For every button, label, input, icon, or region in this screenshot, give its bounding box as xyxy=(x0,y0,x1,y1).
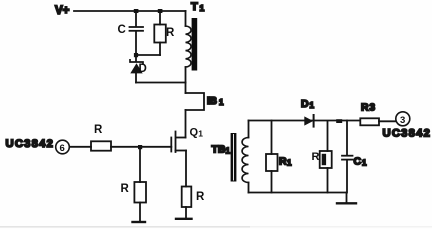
transformer T1 core bar xyxy=(192,18,198,71)
wire R top lead xyxy=(159,11,161,25)
wire C1 bottom lead xyxy=(346,160,348,192)
pin circle 6 xyxy=(56,140,70,154)
svg-text:C: C xyxy=(118,24,126,36)
junction secondary output node xyxy=(336,119,342,123)
svg-text:1: 1 xyxy=(226,147,231,156)
wire R1 bottom lead xyxy=(271,171,273,193)
wire secondary bottom rail xyxy=(249,192,347,194)
transformer TB1 core bars xyxy=(231,133,237,182)
svg-text:R: R xyxy=(196,191,205,203)
wire T1 top pin xyxy=(185,11,187,26)
svg-text:C: C xyxy=(354,156,362,168)
resistor R1 (vertical box) xyxy=(266,154,292,171)
wire bottom of primary loop xyxy=(136,82,186,84)
svg-text:T: T xyxy=(191,1,198,13)
capacitor C1 xyxy=(342,156,367,168)
wire divider tap down xyxy=(139,148,141,182)
label UC3842 pin6 xyxy=(6,138,55,150)
svg-text:TB: TB xyxy=(212,144,226,156)
label UC3842 pin3 xyxy=(383,128,432,140)
junction resistor R tap xyxy=(158,9,163,13)
wire R bottom to cap node horizontal xyxy=(136,54,160,56)
svg-text:3: 3 xyxy=(400,115,405,126)
node junction cap/zener xyxy=(134,53,138,57)
svg-text:3: 3 xyxy=(370,103,376,114)
wire cap bottom lead to zener node xyxy=(135,32,137,62)
wire C1 top lead xyxy=(346,121,348,156)
node V+ xyxy=(55,5,70,17)
wire R1 top lead xyxy=(271,121,273,155)
wire zener anode down xyxy=(135,73,137,82)
wire ground stem (secondary) xyxy=(346,193,348,203)
junction divider tap xyxy=(138,145,142,149)
svg-text:1: 1 xyxy=(219,98,224,107)
transformer TB1 secondary winding xyxy=(242,138,248,183)
transformer T1 primary winding xyxy=(186,26,192,67)
svg-text:1: 1 xyxy=(287,159,292,168)
svg-text:1: 1 xyxy=(198,129,203,139)
resistor R (gate divider, vertical box) xyxy=(121,182,147,203)
svg-text:1: 1 xyxy=(200,3,205,13)
junction capacitor C tap xyxy=(134,9,139,13)
wire R3 to pin circle xyxy=(379,120,396,122)
resistor R3 (horizontal box) xyxy=(360,102,379,126)
svg-text:R: R xyxy=(361,102,369,114)
wire drain drop to IB1 jog xyxy=(185,83,187,94)
resistor R (gate, horizontal box) xyxy=(91,124,111,151)
svg-text:6: 6 xyxy=(60,143,65,154)
svg-text:1: 1 xyxy=(310,101,315,110)
wire top rail from V+ to T1 xyxy=(74,10,186,12)
svg-text:D: D xyxy=(301,98,309,110)
resistor R (source sense, vertical box) xyxy=(182,187,205,208)
transistor Q1 (N-MOSFET) xyxy=(171,127,203,153)
svg-text:R: R xyxy=(166,27,175,39)
label TB1 xyxy=(212,144,231,156)
winding IB1 rectangular jog xyxy=(186,93,225,110)
svg-text:IB: IB xyxy=(207,96,217,107)
scan artifact bottom smear xyxy=(0,226,250,228)
wire sense resistor to ground xyxy=(185,207,187,218)
resistor R (snubber, vertical box) xyxy=(154,25,175,43)
wire T1 primary bottom pin xyxy=(185,67,187,83)
label T1 xyxy=(191,1,205,13)
svg-text:R: R xyxy=(94,124,103,136)
pin circle 3 xyxy=(396,112,410,126)
zener diode D xyxy=(130,60,147,75)
resistor R (adjustable, vertical box with slug) xyxy=(312,151,332,168)
svg-text:UC3842: UC3842 xyxy=(383,128,432,140)
wire adj R bottom lead xyxy=(327,168,329,193)
wire gate resistor to Q1 gate xyxy=(111,146,171,148)
wire TB1 bottom pin xyxy=(248,183,250,193)
diode D1 xyxy=(301,98,315,127)
wire cap top lead xyxy=(135,11,137,26)
ground (secondary) xyxy=(337,202,356,204)
wire divider resistor to ground xyxy=(139,203,141,222)
svg-text:Q: Q xyxy=(190,127,199,139)
svg-text:1: 1 xyxy=(362,159,367,168)
wire secondary top rail xyxy=(249,120,361,122)
svg-text:R: R xyxy=(279,156,287,168)
svg-text:UC3842: UC3842 xyxy=(6,138,55,150)
svg-text:R: R xyxy=(312,151,320,163)
wire Q1 source down xyxy=(185,151,187,187)
svg-text:V+: V+ xyxy=(55,5,70,17)
wire R bottom lead down xyxy=(159,43,161,56)
wire IB1 to Q1 drain xyxy=(185,110,187,138)
wire pin6 to gate resistor xyxy=(70,146,92,148)
svg-text:D: D xyxy=(139,63,147,75)
wire adj R top lead xyxy=(327,121,329,151)
capacitor C xyxy=(118,24,144,36)
ground (divider) xyxy=(133,221,146,223)
wire TB1 top pin xyxy=(248,121,250,138)
svg-text:R: R xyxy=(121,183,130,195)
ground (source sense) xyxy=(176,218,192,220)
